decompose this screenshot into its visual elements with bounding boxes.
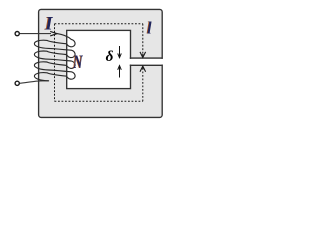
svg-text:δ: δ	[106, 48, 114, 65]
svg-text:l: l	[147, 18, 152, 37]
svg-text:N: N	[72, 53, 84, 73]
svg-text:I: I	[44, 14, 53, 35]
